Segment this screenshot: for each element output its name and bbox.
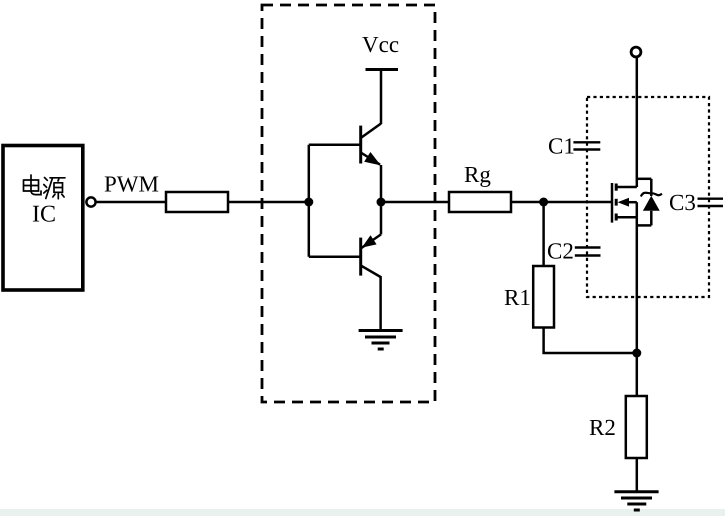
wire resistor to driver input (228, 201, 309, 204)
wire R1 bottom to source node (544, 328, 637, 354)
svg-text:C2: C2 (547, 239, 574, 264)
wire gate node down to R1 (542, 202, 545, 266)
node gate junction dot (539, 198, 548, 207)
wire PWM from IC to series resistor (96, 201, 166, 204)
svg-text:Rg: Rg (464, 162, 491, 187)
drain terminal circle (631, 47, 641, 57)
body diode D1 (637, 179, 662, 226)
wire Vcc to Q1 collector (380, 70, 383, 125)
dotted box MOSFET parasitics (587, 97, 709, 297)
resistor R2 (626, 396, 647, 458)
Vcc supply bar (366, 68, 399, 71)
MOSFET M1 (612, 183, 637, 223)
svg-text:C3: C3 (669, 190, 696, 215)
wire driver output to Rg (381, 201, 449, 204)
wire source down to R2 (636, 217, 639, 396)
wire R2 to ground (636, 458, 639, 492)
svg-text:PWM: PWM (104, 172, 159, 197)
output terminal circle of IC (86, 197, 95, 206)
svg-text:IC: IC (32, 202, 56, 228)
capacitor C2 (575, 248, 601, 256)
transistor Q2 (PNP, lower) (361, 202, 381, 277)
svg-text:Vcc: Vcc (362, 32, 399, 57)
svg-text:C1: C1 (548, 134, 575, 159)
base lead Q1 (309, 144, 361, 147)
resistor (series, unlabeled) (166, 192, 228, 212)
wire Q2 collector to ground (379, 276, 382, 331)
resistor Rg (449, 192, 511, 212)
svg-text:R1: R1 (504, 285, 531, 310)
resistor R1 (533, 266, 554, 328)
node source junction dot (632, 349, 641, 358)
base lead Q2 (309, 256, 361, 259)
power IC box U1 (3, 146, 83, 291)
wire drain (636, 58, 639, 188)
capacitor C3 (698, 199, 724, 206)
bottom page band (0, 509, 725, 516)
dashed box driver stage (262, 5, 435, 402)
ground (output) (614, 492, 658, 510)
node input junction dot (304, 198, 313, 207)
node output junction dot (377, 198, 386, 207)
transistor Q1 (NPN, upper) (361, 124, 381, 203)
label 电源 (power) glyphs (24, 175, 66, 199)
base rail (left vertical) (308, 145, 311, 257)
ground (driver) (359, 331, 403, 350)
capacitor C1 (573, 142, 600, 149)
wire Rg to MOSFET gate (511, 201, 612, 204)
svg-text:R2: R2 (589, 415, 616, 440)
